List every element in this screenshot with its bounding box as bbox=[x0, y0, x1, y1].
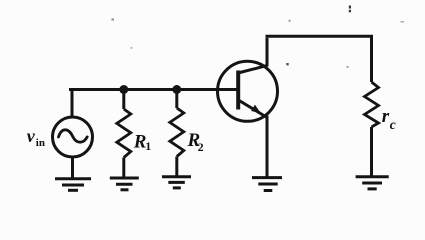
transistor Q1 collector line bbox=[238, 66, 267, 73]
transistor Q1 circle bbox=[218, 61, 278, 121]
wire from R1 to ground bbox=[122, 158, 125, 179]
svg-text:c: c bbox=[390, 117, 396, 132]
label R2 bbox=[187, 130, 204, 154]
node junction at R2 bbox=[172, 85, 181, 94]
scan speck near top right bbox=[349, 6, 351, 13]
label R1 bbox=[133, 131, 152, 153]
voltage source v_in circle bbox=[53, 117, 93, 157]
voltage source sine wave bbox=[59, 130, 88, 142]
svg-text:in: in bbox=[36, 137, 45, 149]
transistor Q1 base bar bbox=[236, 71, 240, 110]
wire from r_c to ground bbox=[370, 127, 373, 177]
transistor Q1 emitter arrowhead bbox=[251, 105, 261, 114]
wire from junction to R2 bbox=[175, 90, 178, 109]
faint scan speck above transistor bbox=[289, 20, 291, 22]
svg-text:2: 2 bbox=[198, 140, 204, 154]
resistor R2 bbox=[170, 108, 184, 157]
ground below R1 bbox=[110, 178, 139, 190]
scan speck right of transistor bbox=[286, 63, 288, 65]
ground below source bbox=[55, 179, 91, 191]
wire from emitter down to ground bbox=[266, 116, 269, 178]
ground below emitter bbox=[252, 178, 282, 191]
node junction at R1 bbox=[119, 85, 128, 94]
resistor R1 bbox=[117, 109, 131, 158]
ground below R2 bbox=[162, 177, 191, 188]
wire: top rail from collector to r_c bbox=[266, 36, 372, 82]
wire from junction to R1 bbox=[122, 90, 125, 110]
wire from collector up to top rail bbox=[266, 38, 269, 67]
faint scan speck left of top rail corner bbox=[347, 66, 349, 68]
wire from source bottom to ground bbox=[71, 157, 74, 178]
ground below r_c bbox=[356, 177, 389, 189]
label r_c bbox=[382, 106, 396, 132]
faint scan speck mid left bbox=[131, 47, 133, 49]
faint scan dash right bbox=[401, 21, 405, 23]
transistor Q1 emitter line bbox=[238, 100, 267, 118]
label v_in bbox=[27, 126, 45, 149]
faint scan speck left top bbox=[112, 19, 115, 21]
resistor r_c bbox=[365, 82, 379, 127]
svg-text:1: 1 bbox=[145, 139, 151, 153]
svg-text:r: r bbox=[382, 106, 390, 127]
wire from source top to rail bbox=[71, 90, 74, 118]
wire: top input rail from source to transistor base bbox=[69, 88, 239, 91]
svg-text:v: v bbox=[27, 126, 36, 146]
wire from R2 to ground bbox=[175, 157, 178, 177]
